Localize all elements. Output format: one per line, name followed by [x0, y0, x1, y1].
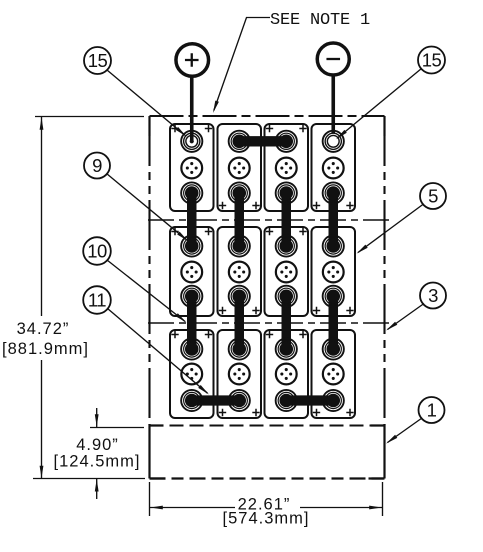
svg-text:[574.3mm]: [574.3mm] [223, 510, 310, 528]
terminal top row1 col1 [181, 131, 202, 152]
wire positive lead [190, 76, 194, 140]
tray right edge [383, 424, 385, 479]
intercell connector bar col3 rows2-3 [282, 296, 292, 349]
polarity mark + row2 col3 [266, 228, 273, 235]
terminal bottom row2 col4 [323, 286, 344, 307]
wire negative lead [331, 75, 335, 133]
polarity mark + row2 col4 [313, 307, 320, 314]
balloon callout 11 at (97,300) [83, 286, 111, 314]
leader balloon 15 right to row1 col4 terminal [338, 69, 422, 139]
svg-text:10: 10 [87, 241, 107, 262]
vent cap row3 col1 [181, 364, 202, 385]
intercell connector bar col4 rows2-3 [329, 296, 339, 349]
vent cap row1 col4 [323, 158, 344, 179]
balloon callout 15 at (432,60) [418, 47, 445, 74]
terminal top row3 col2 [229, 338, 250, 359]
polarity mark + row1 col1 [205, 125, 212, 132]
polarity mark + row2 col2 [252, 307, 259, 314]
polarity mark + row3 col1 [205, 331, 212, 338]
tray top edge dashed [150, 425, 385, 427]
vent cap row1 col1 [181, 158, 202, 179]
polarity mark + row1 col2 [219, 202, 226, 209]
intercell connector bar col1 rows1-2 [187, 193, 197, 246]
terminal bottom row3 col4 [323, 390, 344, 411]
terminal bottom row1 col2 [229, 182, 250, 203]
svg-text:SEE NOTE 1: SEE NOTE 1 [270, 11, 370, 30]
cell battery row1 col1 [170, 124, 214, 211]
polarity mark + row1 col3 [299, 125, 306, 132]
balloon callout 1 at (432,410) [419, 397, 445, 423]
svg-text:4.90”: 4.90” [76, 436, 119, 454]
terminal top row3 col3 [276, 338, 297, 359]
balloon callout 10 at (97,251) [83, 237, 111, 265]
terminal top row1 col4 [323, 131, 344, 152]
terminal top row2 col1 [181, 235, 202, 256]
svg-text:3: 3 [428, 285, 438, 306]
balloon callout 5 at (433,196) [420, 183, 446, 209]
polarity mark + row1 col4 [313, 202, 320, 209]
dimension line 34.72 vertical [41, 117, 43, 478]
polarity mark + row1 col1 [171, 125, 178, 132]
cell battery row1 col2 [218, 124, 262, 211]
vent cap row2 col4 [323, 262, 344, 283]
intercell connector bar col4 rows1-2 [329, 193, 339, 246]
svg-text:[881.9mm]: [881.9mm] [2, 340, 89, 358]
terminal bottom row2 col1 [181, 286, 202, 307]
vent cap row3 col3 [276, 364, 297, 385]
polarity mark + row1 col4 [346, 202, 353, 209]
tray corner stubs [150, 426, 385, 479]
terminal top row1 col3 [276, 131, 297, 152]
cell battery row3 col3 [265, 330, 309, 418]
leader balloon 9 to row2 col1 terminal [107, 174, 187, 240]
polarity mark + row3 col2 [219, 409, 226, 416]
polarity mark + row2 col3 [299, 228, 306, 235]
svg-text:[124.5mm]: [124.5mm] [54, 453, 141, 471]
balloon callout 3 at (433,296) [420, 283, 446, 309]
svg-text:5: 5 [428, 186, 438, 207]
battery envelope outline left edge (phantom) [148, 116, 150, 425]
svg-text:1: 1 [427, 400, 437, 421]
terminal bottom row3 col1 [181, 390, 202, 411]
vent cap row2 col2 [229, 262, 250, 283]
cell battery row3 col2 [218, 330, 262, 418]
vent cap row3 col2 [229, 364, 250, 385]
dimension line 22.61 horizontal [150, 507, 382, 509]
terminal bottom row1 col1 [181, 182, 202, 203]
intercell connector bar row3 col3-col4 (bottom) [286, 395, 333, 405]
cell battery row2 col3 [265, 227, 309, 316]
polarity mark + row2 col4 [346, 307, 353, 314]
dimension arrow above tray top [96, 408, 98, 427]
balloon callout 15 at (98,60) [84, 47, 111, 74]
terminal top row3 col4 [323, 338, 344, 359]
polarity mark + row3 col3 [266, 331, 273, 338]
svg-text:11: 11 [88, 290, 106, 311]
terminal top row2 col4 [323, 235, 344, 256]
svg-text:15: 15 [422, 50, 442, 71]
cell battery row3 col1 [170, 330, 214, 418]
vent cap row1 col3 [276, 158, 297, 179]
tray left edge [148, 424, 150, 479]
svg-text:9: 9 [92, 155, 102, 176]
terminal top row1 col2 [229, 131, 250, 152]
polarity mark + row2 col2 [219, 307, 226, 314]
svg-text:34.72”: 34.72” [17, 320, 70, 338]
intercell connector bar row1 col2-col3 (top) [239, 136, 286, 146]
cell battery row2 col2 [218, 227, 262, 316]
polarity mark + row2 col1 [205, 228, 212, 235]
terminal bottom row3 col3 [276, 390, 297, 411]
cell battery row2 col1 [170, 227, 214, 316]
terminal bottom row2 col2 [229, 286, 250, 307]
cell battery row1 col3 [265, 124, 309, 211]
leader balloon 5 to row2 col4 cell edge [358, 204, 424, 253]
dimension extension line top left [35, 116, 144, 118]
positive terminal symbol [176, 44, 209, 77]
leader balloon 1 to tray right edge [388, 418, 423, 443]
intercell connector bar col2 rows1-2 [235, 193, 245, 246]
intercell connector bar col2 rows2-3 [235, 296, 245, 349]
terminal bottom row1 col4 [323, 182, 344, 203]
tray bottom edge dashed [150, 477, 385, 479]
polarity mark + row3 col4 [346, 409, 353, 416]
polarity mark + row1 col2 [252, 202, 259, 209]
cell battery row3 col4 [312, 330, 356, 418]
intercell connector bar col1 rows2-3 [187, 296, 197, 349]
dimension extension line bottom left [33, 478, 145, 480]
terminal bottom row2 col3 [276, 286, 297, 307]
polarity mark + row3 col3 [299, 331, 306, 338]
polarity mark + row3 col4 [313, 409, 320, 416]
module divider line rows 1-2 [148, 219, 390, 221]
dimension extension line tray top [90, 427, 144, 429]
negative terminal symbol [317, 43, 349, 75]
terminal bottom row1 col3 [276, 182, 297, 203]
balloon callout 9 at (97,166) [84, 153, 110, 179]
terminal top row3 col1 [181, 338, 202, 359]
leader SEE NOTE 1 to envelope top edge [214, 18, 270, 111]
terminal top row2 col3 [276, 235, 297, 256]
terminal bottom row3 col2 [229, 390, 250, 411]
dimension arrow below tray bottom [96, 479, 98, 499]
intercell connector bar col3 rows1-2 [282, 193, 292, 246]
leader balloon 15 left to row1 col1 terminal [107, 70, 185, 135]
polarity mark + row3 col1 [171, 331, 178, 338]
polarity mark + row2 col1 [171, 228, 178, 235]
polarity mark + row1 col3 [266, 125, 273, 132]
vent cap row2 col3 [276, 262, 297, 283]
dimension extension line bottom left vertical [149, 482, 151, 516]
vent cap row3 col4 [323, 364, 344, 385]
leader balloon 10 to col1 bar rows2-3 [107, 260, 185, 322]
terminal top row2 col2 [229, 235, 250, 256]
battery envelope outline right edge (phantom) [383, 116, 385, 425]
leader balloon 3 to envelope right edge [388, 304, 425, 330]
battery envelope outline top edge (phantom) [150, 115, 385, 117]
cell battery row1 col4 [312, 124, 356, 211]
polarity mark + row3 col2 [252, 409, 259, 416]
vent cap row2 col1 [181, 262, 202, 283]
cell battery row2 col4 [312, 227, 356, 316]
svg-text:15: 15 [88, 50, 108, 71]
leader balloon 11 to row3 bottom bar col1-col2 [108, 309, 208, 394]
module divider line rows 2-3 [148, 322, 390, 324]
vent cap row1 col2 [229, 158, 250, 179]
dimension extension line bottom right vertical [382, 482, 384, 516]
envelope corner stubs [150, 116, 385, 136]
